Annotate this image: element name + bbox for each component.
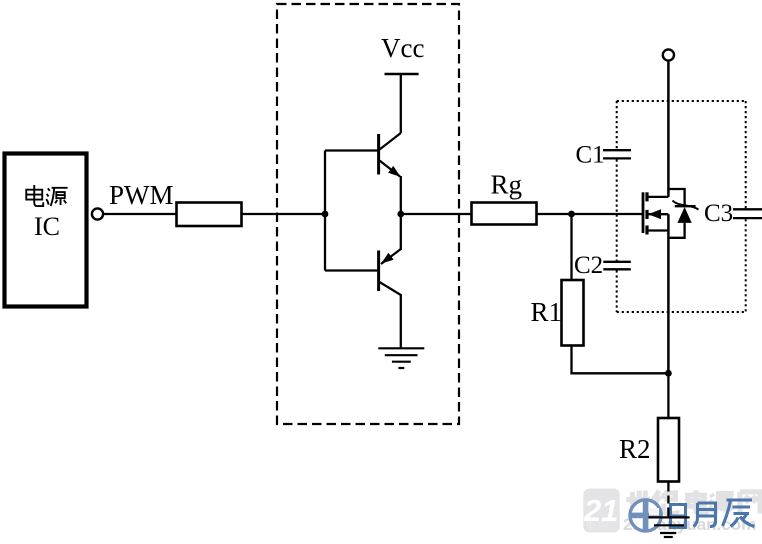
junction dot driver output node bbox=[397, 211, 404, 218]
wire source node to R2 bbox=[667, 373, 669, 418]
wire Q2 base bbox=[325, 269, 379, 271]
dotted parasitic box bbox=[617, 101, 746, 312]
svg-text:Rg: Rg bbox=[491, 170, 523, 200]
wire driver output to Rg bbox=[401, 213, 471, 215]
svg-text:Vcc: Vcc bbox=[381, 33, 424, 63]
junction dot base node bbox=[322, 211, 329, 218]
junction dot source node bbox=[665, 370, 672, 377]
capacitor C1 bbox=[603, 150, 631, 158]
svg-text:21: 21 bbox=[583, 493, 618, 528]
transistor Q2 PNP bbox=[379, 214, 401, 349]
wire gate node to R1 bbox=[570, 214, 572, 280]
wire base rail vertical bbox=[324, 151, 326, 271]
svg-text:C1: C1 bbox=[576, 142, 605, 169]
watermark gray CJK 世纪电源网 bbox=[626, 490, 760, 514]
watermark blue 日月辰 bbox=[671, 500, 755, 528]
svg-text:R2: R2 bbox=[619, 434, 651, 464]
resistor R-pwm bbox=[177, 203, 242, 227]
wire IC to R-pwm bbox=[104, 213, 177, 215]
wire drain terminal down bbox=[667, 62, 670, 198]
svg-text:C2: C2 bbox=[574, 252, 603, 279]
svg-text:PWM: PWM bbox=[109, 180, 174, 210]
ground G2 bbox=[648, 517, 689, 537]
capacitor C2 bbox=[603, 262, 631, 270]
transistor Q1 NPN bbox=[379, 133, 401, 214]
ground G1 driver bbox=[378, 348, 424, 368]
wire R2 to ground bbox=[667, 482, 669, 518]
svg-text:R1: R1 bbox=[531, 297, 563, 327]
watermark gray 21 logo box bbox=[583, 489, 620, 533]
body diode D1 bbox=[668, 189, 698, 238]
power IC box 电源IC bbox=[5, 154, 87, 307]
Vcc rail bar bbox=[385, 73, 419, 76]
wire Rg to gate bbox=[536, 213, 643, 215]
MOSFET M1 bbox=[643, 192, 668, 373]
junction dot gate node bbox=[568, 211, 575, 218]
dashed driver box bbox=[277, 4, 459, 424]
top drain terminal circle bbox=[663, 49, 674, 60]
resistor R2 bbox=[658, 418, 679, 482]
resistor Rg bbox=[472, 203, 537, 225]
wire Vcc to Q1 collector bbox=[400, 74, 402, 133]
watermark blue globe icon bbox=[630, 500, 661, 531]
wire Q1 base to left rail bbox=[325, 149, 379, 151]
capacitor C3 bbox=[733, 209, 762, 218]
svg-text:IC: IC bbox=[34, 212, 60, 241]
wire R1 to source node bbox=[572, 346, 669, 374]
terminal circle on IC output bbox=[92, 208, 103, 219]
wire R-pwm to base node bbox=[241, 213, 325, 215]
resistor R1 bbox=[562, 280, 584, 346]
svg-text:C3: C3 bbox=[704, 200, 733, 227]
